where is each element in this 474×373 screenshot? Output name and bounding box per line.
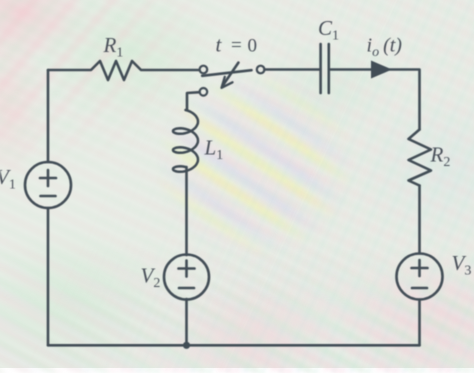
svg-text:L1: L1 xyxy=(204,136,224,164)
svg-text:R2: R2 xyxy=(430,143,451,171)
svg-text:V1: V1 xyxy=(0,165,16,193)
svg-text:t=0: t=0 xyxy=(216,33,258,57)
svg-text:io (t): io (t) xyxy=(367,35,403,61)
svg-text:R1: R1 xyxy=(103,33,124,61)
svg-text:C1: C1 xyxy=(318,16,339,44)
svg-text:V3: V3 xyxy=(452,251,472,279)
svg-text:V2: V2 xyxy=(141,264,161,292)
